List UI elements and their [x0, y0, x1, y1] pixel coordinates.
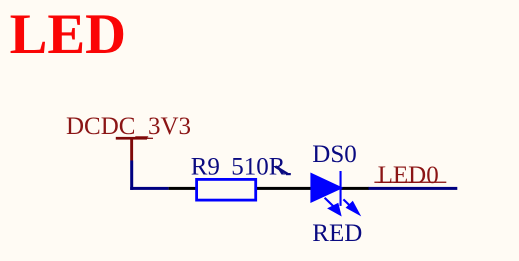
pin resistor right / LED anode [254, 187, 312, 190]
LED arrow 1 [325, 198, 342, 217]
pin resistor left [169, 187, 197, 190]
wire LED0 output [369, 187, 458, 190]
svg-text:LED0: LED0 [378, 162, 439, 189]
svg-text:LED: LED [10, 3, 126, 66]
LED cathode bar [340, 171, 342, 206]
label 510R extended R leg [275, 167, 291, 176]
power port DCDC_3V3 bar [116, 137, 153, 140]
wire horizontal corner to resistor pin [130, 187, 168, 190]
svg-text:DS0: DS0 [312, 141, 356, 168]
svg-text:RED: RED [312, 220, 362, 247]
title LED [10, 3, 126, 66]
resistor R9 body [197, 179, 256, 200]
LED arrow 2 [343, 199, 361, 216]
pin LED cathode [340, 187, 369, 190]
wire vertical from power to corner [130, 161, 133, 190]
net label LED0 underline [374, 182, 446, 183]
svg-text:DCDC_3V3: DCDC_3V3 [66, 113, 191, 140]
svg-text:R9: R9 [191, 154, 220, 181]
LED DS0 triangle [310, 173, 343, 204]
power port stem [130, 138, 133, 161]
